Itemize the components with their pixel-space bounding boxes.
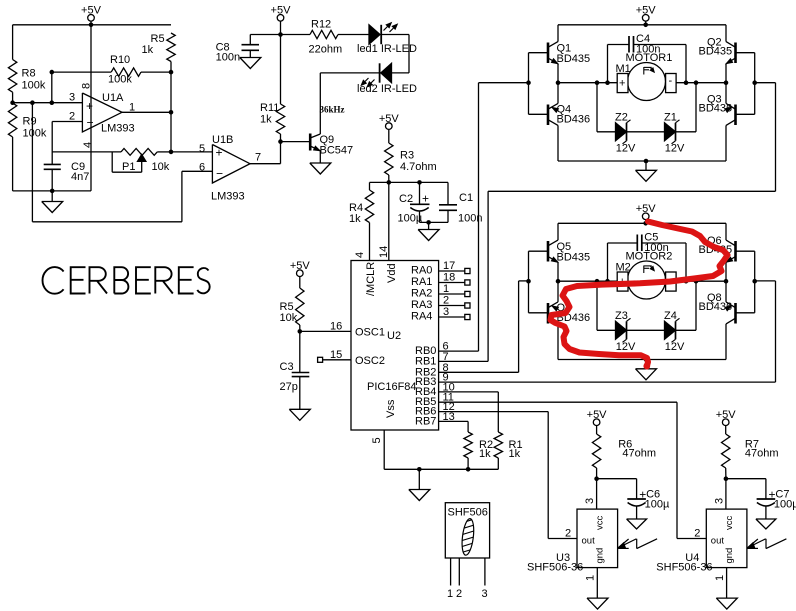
svg-text:22ohm: 22ohm	[309, 44, 343, 56]
capacitor C7 (100u electrolytic)	[726, 479, 796, 519]
svg-text:BD436: BD436	[699, 102, 733, 114]
node motor rail junctions (MOTOR2)	[556, 279, 729, 284]
svg-text:led2 IR-LED: led2 IR-LED	[357, 83, 417, 95]
svg-text:1k: 1k	[142, 44, 154, 56]
svg-text:R8: R8	[22, 68, 36, 80]
svg-text:BD436: BD436	[699, 301, 733, 313]
wire OSC1 pin 16	[300, 321, 351, 333]
svg-text:R10: R10	[110, 54, 130, 66]
wire feedback from pin3 to U1B pin6	[32, 103, 182, 222]
pin RB6 label (pin 12)	[415, 401, 455, 418]
wire U1A output net vertical	[170, 72, 172, 152]
wire vcc pin 3 (U3)	[584, 479, 597, 509]
zener Z4 (12V)	[664, 310, 685, 353]
svg-text:vcc: vcc	[595, 516, 606, 531]
wire RB2 to H-bridge2 left base	[439, 281, 529, 372]
wire RB7 to R2	[439, 421, 469, 432]
svg-text:MOTOR2: MOTOR2	[626, 251, 673, 263]
ground (C8)	[240, 58, 261, 69]
wire bottom rail (MOTOR1)	[558, 160, 726, 162]
node left base input junction (MOTOR2)	[526, 279, 531, 284]
node right base junction (MOTOR2)	[752, 279, 757, 284]
resistor R5 (1k)	[142, 33, 176, 72]
svg-text:R9: R9	[23, 116, 37, 128]
svg-text:1: 1	[447, 588, 453, 600]
svg-text:12V: 12V	[665, 143, 685, 155]
svg-text:C3: C3	[280, 361, 294, 373]
wire +5V rail (LED driver)	[250, 21, 310, 34]
transistor Q3 (BD436)	[699, 83, 755, 161]
ground (C6)	[627, 519, 647, 529]
svg-text:5: 5	[199, 143, 205, 155]
svg-text:led1 IR-LED: led1 IR-LED	[357, 43, 417, 55]
svg-text:5: 5	[371, 437, 383, 443]
node right base junction (MOTOR1)	[752, 80, 757, 85]
ground (C3)	[289, 409, 310, 420]
component SHF506 package outline	[445, 503, 489, 600]
pin RB5 label (pin 11)	[415, 392, 454, 409]
resistor R1 (1k)	[494, 432, 522, 469]
svg-text:-: -	[669, 75, 673, 87]
svg-text:2: 2	[565, 528, 571, 540]
wire RB5 to U4 out	[439, 402, 707, 538]
svg-text:Vdd: Vdd	[386, 263, 398, 283]
svg-text:3: 3	[443, 306, 449, 318]
svg-text:Z3: Z3	[615, 310, 628, 322]
wire RB6 to U3 out	[439, 412, 577, 539]
transistor Q6 (BD435)	[699, 223, 755, 281]
svg-text:BD435: BD435	[557, 252, 591, 264]
svg-text:U1A: U1A	[102, 92, 124, 104]
ground (C2/C1)	[418, 230, 439, 241]
ground (oscillator)	[42, 191, 63, 213]
svg-text:RA3: RA3	[411, 299, 432, 311]
node decoupling ground junction	[426, 220, 431, 225]
pin RB2 label (pin 8)	[415, 362, 449, 379]
ground (Vss/R1/R2)	[409, 490, 430, 501]
svg-text:RA0: RA0	[411, 265, 432, 277]
svg-text:1: 1	[585, 575, 597, 581]
pin RA4 (pin 3)	[411, 306, 470, 323]
svg-text:3: 3	[482, 588, 488, 600]
resistor R3 (4.7ohm)	[385, 129, 437, 182]
wire left base vertical (MOTOR1)	[528, 53, 530, 115]
wire inverting input (pin 2) to C9	[52, 122, 82, 165]
+5V supply symbol (oscillator)	[81, 5, 102, 22]
svg-text:Z4: Z4	[664, 310, 677, 322]
svg-text:Z2: Z2	[615, 112, 628, 124]
svg-text:out: out	[711, 536, 725, 547]
svg-text:BD435: BD435	[699, 46, 733, 58]
svg-text:BD436: BD436	[557, 113, 591, 125]
node OSC1 junction	[298, 329, 303, 334]
svg-text:+5V: +5V	[587, 409, 608, 421]
svg-text:8: 8	[81, 83, 93, 89]
transistor Q8 (BD436)	[699, 281, 755, 359]
+5V supply symbol (MOTOR2)	[636, 203, 657, 220]
node +5V/R11 junction	[278, 32, 283, 37]
resistor R8 (100k)	[8, 25, 45, 103]
zener Z2 (12V)	[615, 112, 636, 155]
svg-text:RB7: RB7	[415, 415, 436, 427]
node R6/C6 junction	[594, 476, 599, 481]
label 36kHz	[320, 105, 345, 115]
svg-text:16: 16	[330, 321, 342, 333]
svg-text:U1B: U1B	[212, 134, 233, 146]
svg-text:out: out	[582, 536, 596, 547]
transistor Q7 (BD436)	[529, 281, 591, 359]
wire +5V top rail (MOTOR1)	[558, 21, 726, 25]
node divider/feedback junctions on pin3 row	[10, 100, 54, 105]
svg-text:MOTOR1: MOTOR1	[626, 52, 673, 64]
node bottom rail ground junction (MOTOR1)	[644, 159, 649, 164]
svg-text:7: 7	[255, 152, 261, 164]
capacitor C5 (100n)	[608, 232, 687, 282]
svg-text:+5V: +5V	[379, 113, 400, 125]
resistor R9 (100k)	[8, 103, 46, 191]
IR signal arrows (U4)	[747, 539, 786, 549]
+5V supply symbol (LED driver)	[271, 5, 292, 22]
node Q9 base junction	[278, 139, 283, 144]
wire zener branch (MOTOR2)	[597, 281, 696, 330]
pin RA2 (pin 1)	[411, 283, 470, 300]
node bottom rail ground junction (MOTOR2)	[644, 357, 649, 362]
capacitor C3 (27p)	[280, 331, 310, 409]
wire +5V top rail (left oscillator)	[13, 21, 171, 25]
svg-text:1k: 1k	[509, 448, 521, 460]
capacitor C2 (100u electrolytic)	[398, 182, 430, 224]
motor MOTOR1	[616, 52, 677, 101]
svg-text:15: 15	[330, 349, 342, 361]
svg-text:100k: 100k	[23, 128, 47, 140]
svg-text:1k: 1k	[479, 448, 491, 460]
+5V supply symbol (R3)	[379, 113, 400, 130]
resistor R11 (1k)	[260, 35, 285, 142]
svg-text:+5V: +5V	[636, 5, 657, 17]
node +5V rail junction (MOTOR1)	[643, 23, 648, 28]
svg-text:1: 1	[443, 283, 449, 295]
node +5V rail junction	[89, 23, 94, 28]
ground (MOTOR1 bridge)	[636, 161, 657, 181]
IR signal arrows (U3)	[618, 539, 657, 549]
svg-text:P1: P1	[122, 161, 135, 173]
ground (U3)	[587, 598, 608, 609]
svg-text:+5V: +5V	[271, 5, 292, 17]
svg-text:47ohm: 47ohm	[622, 448, 656, 460]
svg-text:RA4: RA4	[411, 311, 432, 323]
motor MOTOR2	[616, 251, 677, 300]
resistor R12 (22ohm)	[309, 19, 370, 56]
wire vcc pin 3 (U4)	[713, 479, 726, 509]
svg-text:2: 2	[69, 111, 75, 123]
svg-text:PIC16F84: PIC16F84	[367, 381, 417, 393]
red marker scribble over MOTOR2 bridge	[551, 222, 728, 367]
wire RB3 to H-bridge2 right base	[439, 281, 776, 382]
svg-text:LM393: LM393	[211, 191, 245, 203]
svg-text:100µ: 100µ	[398, 213, 423, 225]
zener Z3 (12V)	[615, 310, 636, 353]
svg-text:Vss: Vss	[385, 399, 397, 418]
svg-text:SHF506-36: SHF506-36	[527, 562, 583, 574]
node R7/C7 junction	[724, 476, 729, 481]
svg-text:+5V: +5V	[290, 260, 311, 272]
svg-text:+: +	[216, 146, 223, 160]
svg-text:4: 4	[354, 252, 366, 258]
svg-text:+: +	[422, 192, 429, 206]
node P1/U1A-output junction	[169, 150, 174, 155]
svg-text:+: +	[619, 78, 625, 90]
wire op-amp supply vertical (pin8/pin4)	[90, 25, 92, 191]
node C9 ground junction	[50, 189, 55, 194]
wire left base vertical (MOTOR2)	[528, 251, 530, 313]
svg-text:2: 2	[456, 588, 462, 600]
+5V supply symbol (MOTOR1)	[636, 5, 657, 22]
+5V supply symbol (OSC1 pull-up)	[290, 260, 311, 277]
wire gnd pin 1 (U3)	[585, 568, 598, 599]
svg-text:12V: 12V	[616, 143, 636, 155]
svg-text:12V: 12V	[665, 341, 685, 353]
svg-text:+5V: +5V	[636, 203, 657, 215]
node motor rail junctions (MOTOR1)	[556, 80, 729, 85]
diode led2 IR-LED	[320, 63, 417, 95]
wire U1A output to net	[122, 111, 171, 113]
pin RB4 label (pin 10)	[415, 381, 455, 398]
svg-text:27p: 27p	[280, 381, 298, 393]
capacitor C6 (100u electrolytic)	[597, 479, 670, 519]
node left base input junction (MOTOR1)	[526, 80, 531, 85]
IC U4 SHF506-36	[656, 509, 747, 573]
resistor R5 (10k pull-up)	[280, 277, 305, 332]
ground (Q9 emitter)	[310, 163, 331, 174]
svg-text:100µ: 100µ	[774, 499, 796, 511]
svg-text:BC547: BC547	[320, 145, 354, 157]
transistor Q4 (BD436)	[529, 83, 591, 161]
wire right base vertical (MOTOR1)	[754, 53, 756, 115]
svg-text:+5V: +5V	[81, 5, 102, 17]
svg-text:gnd: gnd	[595, 548, 606, 564]
svg-text:10k: 10k	[280, 312, 298, 324]
svg-text:/MCLR: /MCLR	[365, 262, 377, 296]
diode led1 IR-LED	[357, 23, 417, 56]
wire C2/C1 ground rail	[420, 222, 449, 229]
svg-text:17: 17	[443, 260, 455, 272]
svg-text:+: +	[86, 99, 93, 113]
pin RA1 (pin 18)	[411, 272, 470, 289]
op-amp U1B (LM393)	[199, 134, 261, 203]
wire oscillator ground rail	[13, 190, 91, 192]
IC U2 PIC16F84	[351, 246, 439, 430]
svg-text:R11: R11	[260, 102, 279, 114]
svg-text:+5V: +5V	[716, 409, 737, 421]
svg-text:RA2: RA2	[411, 288, 432, 300]
resistor R7 (47ohm)	[722, 426, 779, 479]
wire R10 tap to pin3	[51, 72, 53, 103]
svg-text:R12: R12	[311, 19, 331, 31]
ground (MOTOR2 bridge)	[636, 360, 657, 380]
ground (C7)	[756, 519, 776, 529]
svg-text:Z1: Z1	[664, 112, 677, 124]
wire U1B output to Q9 base node	[250, 142, 281, 164]
node +5V rail junction (MOTOR2)	[643, 221, 648, 226]
svg-text:3: 3	[69, 92, 75, 104]
svg-text:−: −	[216, 167, 223, 181]
node R5/R10 junction	[169, 70, 174, 75]
svg-text:OSC2: OSC2	[355, 355, 385, 367]
svg-text:OSC1: OSC1	[355, 327, 385, 339]
resistor R10 (100k)	[52, 54, 171, 86]
svg-text:SHF506-36: SHF506-36	[656, 562, 712, 574]
wire RB0 to H-bridge1 left base	[439, 83, 529, 351]
svg-text:47ohm: 47ohm	[745, 448, 779, 460]
pin RA3 (pin 2)	[411, 295, 470, 312]
svg-text:C2: C2	[399, 193, 413, 205]
svg-text:4.7ohm: 4.7ohm	[400, 161, 437, 173]
resistor R6 (47ohm)	[592, 426, 656, 479]
transistor Q2 (BD435)	[699, 25, 755, 83]
IC U3 SHF506-36	[527, 509, 618, 573]
svg-text:4n7: 4n7	[71, 171, 89, 183]
wire OSC2 pin 15	[318, 349, 351, 362]
svg-text:1k: 1k	[260, 114, 272, 126]
ground (U4)	[716, 598, 737, 609]
capacitor C4 (100n)	[608, 33, 687, 83]
svg-text:4: 4	[82, 142, 94, 148]
svg-text:10k: 10k	[152, 161, 170, 173]
svg-text:SHF506: SHF506	[448, 507, 488, 519]
svg-text:M1: M1	[616, 63, 631, 75]
svg-text:C1: C1	[459, 192, 473, 204]
resistor R2 (1k)	[464, 432, 493, 469]
wire led1 cathode to led2 anode	[392, 35, 410, 73]
wire non-inverting input row (pin 3)	[13, 102, 83, 104]
pin RB0 label (pin 6)	[415, 341, 449, 358]
wire RB4 to R1	[439, 392, 499, 432]
svg-text:100µ: 100µ	[645, 499, 670, 511]
wire Vdd supply rail	[370, 182, 449, 260]
title CERBERES	[43, 267, 210, 294]
wire U1B pin6 input	[182, 170, 213, 172]
pin RA0 (pin 17)	[411, 260, 470, 277]
resistor R4 (1k)	[349, 182, 374, 260]
+5V supply symbol (R7)	[716, 409, 737, 426]
wire motor rail (MOTOR1)	[558, 82, 726, 84]
wire bottom rail (MOTOR2)	[558, 359, 726, 361]
zener Z1 (12V)	[664, 112, 685, 155]
svg-text:3: 3	[713, 498, 725, 504]
svg-text:100n: 100n	[216, 52, 240, 64]
transistor Q9 (BC547)	[281, 134, 354, 164]
capacitor C1 (100n)	[439, 182, 482, 224]
svg-text:2: 2	[694, 528, 700, 540]
svg-text:3: 3	[584, 498, 596, 504]
pin RB7 label (pin 13)	[415, 411, 455, 428]
node R3/Vdd junction	[387, 180, 422, 185]
svg-text:14: 14	[378, 246, 390, 258]
svg-text:BD435: BD435	[557, 53, 591, 65]
svg-text:1k: 1k	[349, 213, 361, 225]
wire right base vertical (MOTOR2)	[754, 251, 756, 313]
svg-text:gnd: gnd	[724, 548, 735, 564]
+5V supply symbol (R6)	[587, 409, 608, 426]
wire RB1 to H-bridge1 right base	[439, 83, 776, 362]
svg-text:−: −	[87, 116, 94, 130]
svg-text:12V: 12V	[616, 341, 636, 353]
wire +5V top rail (MOTOR2)	[558, 220, 726, 224]
capacitor C8 (100n)	[216, 35, 259, 64]
svg-text:100k: 100k	[108, 74, 132, 86]
svg-text:U2: U2	[387, 330, 401, 342]
node ground rail junctions	[417, 467, 470, 472]
svg-text:1: 1	[714, 575, 726, 581]
svg-text:vcc: vcc	[724, 516, 735, 531]
svg-text:2: 2	[443, 295, 449, 307]
pin RB3 label (pin 9)	[415, 372, 449, 389]
potentiometer P1 (10k)	[52, 149, 171, 174]
wire U1B pin5 input	[171, 151, 212, 153]
node R10 left tap	[50, 70, 55, 75]
svg-text:RA1: RA1	[411, 276, 432, 288]
node U1A output junction	[169, 110, 174, 115]
wire gnd pin 1 (U4)	[714, 568, 727, 599]
wire zener branch (MOTOR1)	[597, 83, 696, 132]
wire Vss ground rail	[371, 430, 498, 490]
wire 36kHz collector line	[319, 73, 321, 134]
svg-text:M2: M2	[616, 262, 631, 274]
transistor Q5 (BD435)	[529, 223, 591, 281]
svg-text:36kHz: 36kHz	[320, 105, 345, 115]
wire motor rail (MOTOR2)	[558, 280, 726, 282]
svg-text:100k: 100k	[22, 80, 46, 92]
pin RB1 label (pin 7)	[415, 351, 449, 368]
svg-text:LM393: LM393	[101, 123, 135, 135]
svg-text:18: 18	[443, 272, 455, 284]
op-amp U1A (LM393)	[69, 83, 135, 148]
capacitor C9 (4n7)	[44, 161, 90, 191]
transistor Q1 (BD435)	[529, 25, 591, 83]
svg-text:R3: R3	[400, 150, 414, 162]
